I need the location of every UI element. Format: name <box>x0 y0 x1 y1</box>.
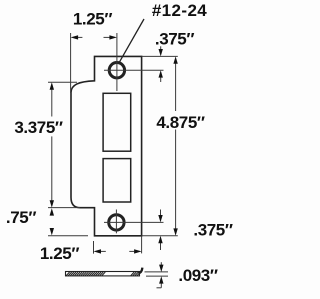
svg-text:#12-24: #12-24 <box>152 1 207 20</box>
svg-text:3.375″: 3.375″ <box>14 118 63 137</box>
svg-text:1.25″: 1.25″ <box>73 10 112 29</box>
svg-text:.375″: .375″ <box>155 29 194 48</box>
svg-text:4.875″: 4.875″ <box>156 113 205 132</box>
svg-text:.375″: .375″ <box>193 221 232 240</box>
svg-text:.093″: .093″ <box>178 266 217 285</box>
svg-text:.75″: .75″ <box>6 208 36 227</box>
svg-text:1.25″: 1.25″ <box>40 244 79 263</box>
